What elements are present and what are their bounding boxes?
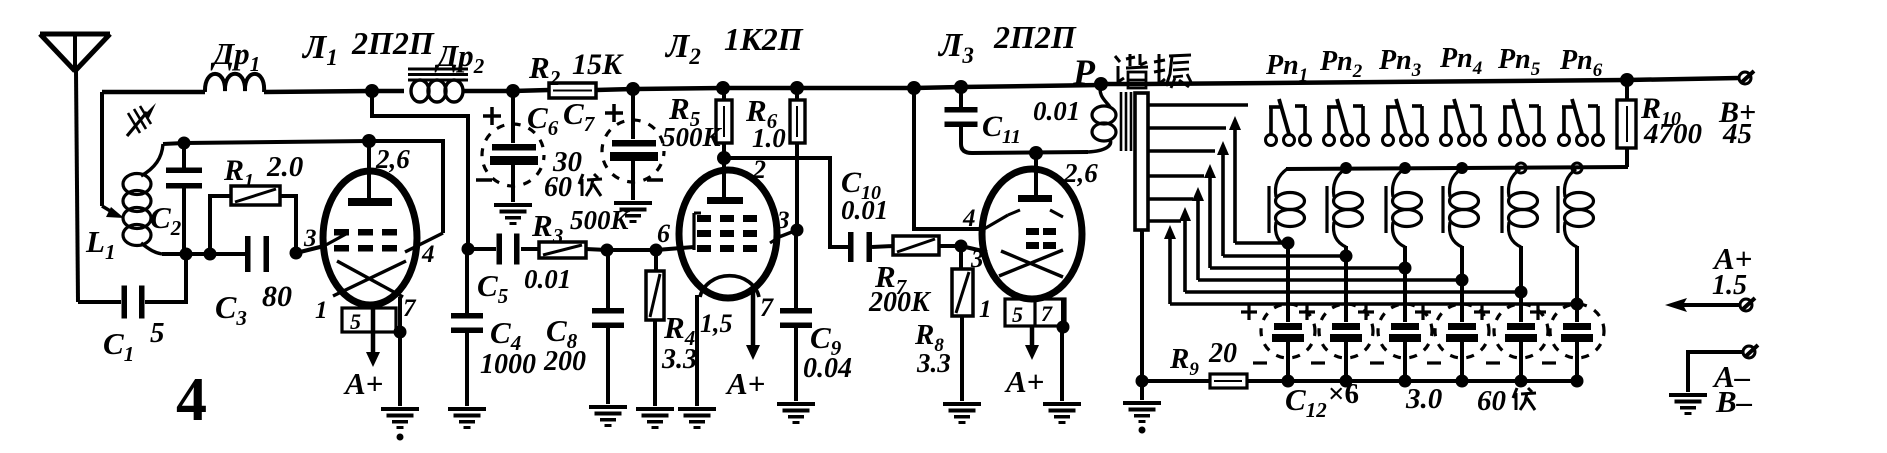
wire coil4 column bbox=[1460, 246, 1464, 322]
node column5 junction bbox=[1515, 286, 1528, 299]
relay contact Rp2 bbox=[1324, 135, 1335, 146]
svg-text:Рп6: Рп6 bbox=[1559, 45, 1603, 81]
svg-text:500K: 500K bbox=[662, 122, 723, 152]
C6 plus bbox=[483, 114, 501, 118]
node R7-R8 bbox=[955, 240, 968, 253]
svg-text:B–: B– bbox=[1715, 384, 1753, 419]
C12-5 minus bbox=[1486, 361, 1500, 364]
svg-text:C2: C2 bbox=[150, 200, 182, 240]
wire tube3 pin4 bbox=[914, 88, 984, 229]
ground B- terminal bbox=[1669, 393, 1707, 397]
svg-text:15K: 15K bbox=[572, 48, 624, 81]
relay contact Rp3 bbox=[1383, 135, 1394, 146]
svg-text:4700: 4700 bbox=[1643, 118, 1702, 150]
resistor R2 bbox=[549, 83, 596, 98]
wire bus over transformer bbox=[1101, 82, 1143, 87]
wire coil3 column bbox=[1403, 246, 1407, 322]
svg-text:7: 7 bbox=[403, 295, 417, 322]
node bus-R5 bbox=[716, 81, 730, 95]
transformer secondary bbox=[1135, 93, 1148, 230]
svg-text:2: 2 bbox=[752, 155, 766, 184]
resistor R3 bbox=[539, 242, 586, 258]
tube3 base box bbox=[1005, 299, 1065, 326]
choke Dr1 bbox=[205, 74, 264, 92]
capacitor C12-1 bbox=[1274, 323, 1302, 330]
C12-1 plus bbox=[1241, 310, 1257, 313]
ground transformer bbox=[1140, 381, 1144, 400]
svg-text:0.01: 0.01 bbox=[1033, 96, 1080, 126]
relay coil Rp1 bbox=[1267, 186, 1270, 233]
wire secondary tap 2 bbox=[1148, 126, 1226, 130]
svg-text:A+: A+ bbox=[1004, 364, 1044, 399]
capacitor C3 bbox=[245, 236, 251, 272]
wire bus R2 to C7 node bbox=[596, 89, 633, 90]
ground tube2 cathode bbox=[678, 407, 716, 411]
svg-text:7: 7 bbox=[1041, 301, 1053, 326]
wire node to tube3 pin3 bbox=[961, 246, 987, 252]
tube2 pin3 lead bbox=[779, 230, 797, 237]
wire C11 to transformer primary bbox=[972, 152, 1088, 153]
svg-text:7: 7 bbox=[760, 293, 774, 322]
node grid2 bbox=[717, 151, 731, 165]
resistor R5 bbox=[716, 100, 732, 143]
svg-text:Рп1: Рп1 bbox=[1265, 50, 1308, 86]
wire L1 top to grid line bbox=[163, 143, 184, 144]
node column2 bottom bbox=[1340, 375, 1353, 388]
svg-text:1.5: 1.5 bbox=[1712, 270, 1747, 301]
ground C9 bbox=[777, 402, 815, 406]
terminal A+ 1.5 bbox=[1683, 303, 1740, 307]
resistor R8 bbox=[959, 246, 963, 269]
C12-3 plus bbox=[1358, 310, 1374, 313]
transformer primary bbox=[1100, 84, 1110, 107]
node R4 bbox=[650, 244, 663, 257]
wire selector arrow 6 bbox=[1170, 302, 1577, 306]
transformer core bbox=[1120, 92, 1123, 151]
node bus-C11 bbox=[954, 80, 968, 94]
C12-3 minus bbox=[1370, 361, 1384, 364]
svg-text:3.3: 3.3 bbox=[916, 348, 951, 378]
tube3 upper right tick bbox=[1050, 210, 1063, 217]
wire bus transformer to R10 bbox=[1143, 80, 1627, 84]
capacitor C9 bbox=[780, 308, 812, 314]
relay coil Rp6 bbox=[1556, 186, 1559, 233]
node column6 junction bbox=[1571, 298, 1584, 311]
wire bus C6 to R2 bbox=[513, 90, 549, 91]
node column4 bottom bbox=[1456, 375, 1469, 388]
wire bus C7 to R5 bbox=[633, 88, 723, 89]
wire tube1 top cap bbox=[367, 141, 371, 198]
node rail-coil6 bbox=[1572, 163, 1582, 173]
node ground rail left bbox=[1136, 375, 1149, 388]
wire coil5 column bbox=[1519, 246, 1523, 322]
relay contact Rp6 bbox=[1559, 135, 1570, 146]
svg-text:2,6: 2,6 bbox=[375, 144, 410, 174]
node C8 bbox=[601, 244, 614, 257]
wire selector arrow 4 bbox=[1198, 278, 1462, 282]
wire secondary tap 6 bbox=[1148, 219, 1181, 223]
capacitor C12-3 bbox=[1391, 323, 1419, 330]
node tube1 top cap bbox=[362, 134, 376, 148]
svg-text:1: 1 bbox=[315, 297, 328, 324]
wire C10 to R7 bbox=[872, 246, 893, 247]
C7 dashed circle bbox=[602, 120, 664, 182]
svg-text:3: 3 bbox=[776, 207, 790, 234]
svg-text:A+: A+ bbox=[343, 366, 383, 401]
svg-text:Р: Р bbox=[1072, 52, 1096, 92]
wire coil2 column bbox=[1344, 246, 1348, 322]
tube1 pin3 lead-in bbox=[324, 234, 346, 246]
ground tube1 pin7 bbox=[381, 407, 419, 411]
svg-text:Л3: Л3 bbox=[937, 27, 974, 68]
C7 minus bbox=[647, 178, 663, 182]
C12-5 plus bbox=[1474, 310, 1490, 313]
C12-2 plus bbox=[1299, 310, 1315, 313]
svg-text:C12: C12 bbox=[1285, 382, 1327, 422]
tube1 anode bar bbox=[348, 198, 392, 206]
tube U2 envelope bbox=[679, 170, 777, 298]
tube2 grid dashes bbox=[697, 215, 711, 222]
node column3 junction bbox=[1399, 262, 1412, 275]
wire secondary bottom to ground node bbox=[1140, 230, 1144, 381]
C12-4 plus bbox=[1415, 310, 1431, 313]
svg-text:0.01: 0.01 bbox=[524, 264, 571, 294]
svg-text:Рп4: Рп4 bbox=[1439, 43, 1482, 79]
svg-text:C5: C5 bbox=[477, 268, 508, 308]
svg-text:1,5: 1,5 bbox=[700, 309, 733, 338]
svg-text:Рп2: Рп2 bbox=[1319, 46, 1363, 82]
wire C8 node to R4 node bbox=[607, 248, 656, 252]
node bus-R6 bbox=[790, 81, 804, 95]
C12-1 dashed circle bbox=[1261, 304, 1315, 358]
node column3 bottom bbox=[1399, 375, 1412, 388]
ground tube3 pin7 bbox=[1043, 402, 1081, 406]
capacitor C1 bbox=[78, 300, 121, 304]
svg-text:20: 20 bbox=[1208, 338, 1237, 369]
svg-text:2.0: 2.0 bbox=[266, 151, 303, 183]
svg-text:Л1: Л1 bbox=[301, 29, 338, 70]
wire R3 to C8 node bbox=[586, 249, 607, 250]
capacitor C6 bbox=[511, 91, 515, 143]
adjustable coupling arrow bbox=[127, 112, 147, 136]
tube2 grid bracket bbox=[692, 213, 695, 250]
C6 dashed circle bbox=[482, 124, 544, 186]
ground C4 bbox=[448, 407, 486, 411]
arrow tube3 A+ bbox=[1030, 326, 1035, 348]
C6 minus bbox=[476, 178, 492, 182]
coil L1 bbox=[123, 174, 151, 195]
svg-text:1.0: 1.0 bbox=[752, 123, 786, 153]
svg-text:45: 45 bbox=[1722, 118, 1752, 150]
node tube2 pin3 bbox=[791, 224, 804, 237]
relay coil Rp4 bbox=[1441, 186, 1444, 233]
svg-text:C7: C7 bbox=[563, 96, 596, 136]
C12-1 minus bbox=[1253, 361, 1267, 364]
wire relay coil top rail bbox=[1286, 167, 1628, 169]
node bus-C6 bbox=[506, 84, 520, 98]
resistor R9 bbox=[1142, 379, 1210, 383]
capacitor C11 bbox=[959, 87, 963, 109]
svg-text:2,6: 2,6 bbox=[1063, 158, 1098, 188]
svg-text:3.3: 3.3 bbox=[661, 344, 697, 375]
wire L1 bottom line bbox=[162, 252, 246, 256]
relay coil Rp2 bbox=[1325, 186, 1328, 233]
ground R4 bbox=[636, 407, 674, 411]
node tube3 top cap bbox=[1029, 146, 1043, 160]
wire grid top line bbox=[184, 141, 369, 143]
wire grid2 to C10 bbox=[724, 158, 849, 247]
capacitor C8 bbox=[606, 250, 610, 310]
svg-text:5: 5 bbox=[1012, 302, 1023, 327]
ground C6 bbox=[494, 203, 532, 207]
svg-text:60: 60 bbox=[1477, 385, 1506, 417]
svg-text:200: 200 bbox=[543, 346, 586, 377]
svg-text:2П2П: 2П2П bbox=[351, 25, 435, 61]
svg-text:1000: 1000 bbox=[480, 349, 536, 380]
choke Dr2 bbox=[372, 89, 404, 94]
node bus-C7 bbox=[626, 82, 640, 96]
wire R5 to tube2 top cap bbox=[722, 158, 726, 198]
wire tube2 cathode to ground bbox=[695, 295, 699, 406]
svg-text:×6: ×6 bbox=[1328, 378, 1359, 410]
relay coil Rp3 bbox=[1384, 186, 1387, 233]
svg-text:C11: C11 bbox=[982, 110, 1021, 148]
svg-text:5: 5 bbox=[150, 317, 165, 349]
node column6 bottom bbox=[1571, 375, 1584, 388]
terminal B- bbox=[1743, 346, 1755, 358]
wire secondary tap 5 bbox=[1148, 197, 1193, 201]
C12-5 dashed circle bbox=[1494, 304, 1548, 358]
wire R7 to node bbox=[939, 244, 961, 248]
wire R6 node down to C9 bbox=[794, 230, 798, 310]
wire antenna-bus corner to L1 tap bbox=[100, 92, 104, 206]
svg-text:C1: C1 bbox=[103, 326, 134, 366]
relay coil Rp5 bbox=[1500, 186, 1503, 233]
svg-text:3.0: 3.0 bbox=[1405, 383, 1442, 415]
relay contact Rp1 bbox=[1266, 135, 1277, 146]
svg-text:R3: R3 bbox=[531, 208, 563, 248]
svg-text:Др2: Др2 bbox=[434, 38, 485, 78]
label xie-zhen (resonance) bbox=[1115, 56, 1120, 62]
capacitor C12-2 bbox=[1332, 323, 1360, 330]
svg-text:4: 4 bbox=[176, 366, 207, 434]
wire tube1 pins 2,6 loop bbox=[369, 141, 443, 233]
capacitor C2 bbox=[182, 143, 186, 170]
ground R8 bbox=[943, 402, 981, 406]
wire top bus bbox=[102, 90, 205, 95]
tube3 anode bar bbox=[1018, 195, 1052, 202]
wire selector arrow 1 bbox=[1235, 241, 1288, 245]
node bus-R10 bbox=[1620, 73, 1634, 87]
svg-text:6: 6 bbox=[657, 219, 670, 248]
capacitor C7 bbox=[631, 89, 635, 139]
capacitor C4 bbox=[465, 249, 469, 315]
node L1 bottom-C1 bbox=[180, 248, 193, 261]
tube1 base box bbox=[342, 308, 396, 332]
node tube3 pin7 bbox=[1057, 321, 1070, 334]
svg-text:3: 3 bbox=[303, 225, 317, 252]
antenna bbox=[40, 32, 110, 37]
node C4-C5 bbox=[462, 243, 475, 256]
wire plate feed bbox=[372, 91, 468, 249]
wire selector arrow 2 bbox=[1223, 254, 1346, 258]
node rail-coil4 bbox=[1456, 162, 1468, 174]
capacitor C10 bbox=[848, 232, 854, 262]
tube1 cathode cross bbox=[333, 261, 406, 296]
node column1 junction bbox=[1282, 237, 1295, 250]
node rail-coil2 bbox=[1340, 162, 1352, 174]
wire bus C11 to transformer bbox=[961, 85, 1101, 87]
node bus-pin4 drop bbox=[907, 81, 921, 95]
tube2 cathode dome bbox=[700, 276, 759, 297]
resistor R10 bbox=[1617, 100, 1636, 148]
C12-6 plus bbox=[1530, 310, 1546, 313]
C12-4 dashed circle bbox=[1435, 304, 1489, 358]
capacitor C12-6 bbox=[1563, 323, 1591, 330]
resistor R7 bbox=[893, 236, 939, 255]
C12-6 dashed circle bbox=[1550, 304, 1604, 358]
svg-text:0.01: 0.01 bbox=[841, 195, 888, 225]
node tube1 pin7 bbox=[394, 326, 407, 339]
node rail-coil5 bbox=[1516, 163, 1526, 173]
svg-text:Л2: Л2 bbox=[664, 28, 701, 69]
svg-text:2П2П: 2П2П bbox=[993, 19, 1077, 55]
C12-4 minus bbox=[1427, 361, 1441, 364]
svg-text:80: 80 bbox=[262, 280, 292, 313]
wire bus Dr2 to C6 node bbox=[470, 89, 513, 94]
svg-text:R1: R1 bbox=[223, 154, 254, 192]
tube1 grid dashes bbox=[334, 229, 349, 236]
wire C12 bottom rail bbox=[1247, 379, 1580, 383]
node L1-C2 top bbox=[178, 137, 191, 150]
svg-text:60: 60 bbox=[544, 172, 572, 203]
capacitor C12-4 bbox=[1448, 323, 1476, 330]
C12-3 dashed circle bbox=[1378, 304, 1432, 358]
wire coil1 column bbox=[1286, 246, 1290, 322]
svg-text:L1: L1 bbox=[85, 224, 115, 264]
svg-text:C6: C6 bbox=[527, 100, 559, 140]
node column5 bottom bbox=[1515, 375, 1528, 388]
svg-text:Др1: Др1 bbox=[210, 36, 260, 76]
svg-text:R9: R9 bbox=[1169, 343, 1199, 380]
wire secondary tap 1 bbox=[1148, 103, 1248, 107]
wire tube3 top cap bbox=[1034, 153, 1038, 196]
relay contact Rp5 bbox=[1500, 135, 1511, 146]
node column1 bottom bbox=[1282, 375, 1295, 388]
C7 plus bbox=[605, 111, 623, 115]
tube U3 envelope bbox=[982, 169, 1082, 299]
svg-text:200K: 200K bbox=[868, 287, 932, 318]
ground C8 bbox=[589, 405, 627, 409]
wire bus to C11 node bbox=[914, 87, 961, 88]
C12-2 dashed circle bbox=[1319, 304, 1373, 358]
wire secondary tap 4 bbox=[1148, 174, 1204, 178]
node L1 bottom-R1C3 left bbox=[204, 248, 217, 261]
svg-text:0.04: 0.04 bbox=[803, 353, 852, 384]
node column2 junction bbox=[1340, 250, 1353, 263]
svg-text:5: 5 bbox=[350, 309, 361, 334]
tube3 grid dashes bbox=[1026, 228, 1039, 235]
node bus-L1 plate bbox=[365, 84, 379, 98]
wire tube3 pin7 to ground bbox=[1061, 299, 1065, 327]
tube3 pin4 lead bbox=[984, 215, 1008, 229]
wire bus R6 to pin4 drop bbox=[797, 86, 914, 91]
svg-text:A+: A+ bbox=[725, 366, 765, 401]
node rail-coil3 bbox=[1399, 162, 1411, 174]
wire selector arrow 5 bbox=[1185, 290, 1521, 294]
wire coil6 column bbox=[1575, 246, 1579, 322]
wire bus Dr1 to node bbox=[264, 91, 372, 92]
svg-text:Рп5: Рп5 bbox=[1497, 44, 1541, 80]
wire R4 node to tube2 pin6 bbox=[656, 247, 694, 250]
arrow tube2 A+ bbox=[751, 291, 756, 348]
arrow tube1 A+ bbox=[371, 305, 376, 355]
svg-text:R2: R2 bbox=[528, 50, 561, 90]
tube2 anode bar bbox=[707, 197, 743, 204]
capacitor C5 bbox=[468, 247, 496, 251]
C12-6 minus bbox=[1542, 361, 1556, 364]
node bus-transformer primary bbox=[1094, 77, 1108, 91]
wire tube1 pin7 to ground bbox=[398, 297, 402, 332]
resistor R4 bbox=[654, 250, 658, 271]
resistor R1 bbox=[210, 196, 231, 254]
svg-text:4: 4 bbox=[962, 205, 976, 232]
wire selector arrow 3 bbox=[1210, 266, 1405, 270]
svg-text:4: 4 bbox=[421, 241, 435, 268]
resistor R6 bbox=[790, 100, 805, 143]
tube U1 envelope bbox=[323, 171, 417, 305]
relay contact Rp4 bbox=[1441, 135, 1452, 146]
svg-text:1: 1 bbox=[979, 296, 992, 323]
capacitor C12-5 bbox=[1507, 323, 1535, 330]
C12-2 minus bbox=[1311, 361, 1325, 364]
svg-text:1К2П: 1К2П bbox=[724, 21, 804, 57]
terminal B+ bbox=[1739, 72, 1751, 84]
wire secondary tap 3 bbox=[1148, 149, 1215, 153]
svg-text:Рп3: Рп3 bbox=[1378, 45, 1421, 81]
svg-text:C3: C3 bbox=[215, 289, 247, 330]
node R1C3 right bbox=[290, 247, 303, 260]
ground C7 bbox=[614, 201, 652, 205]
wire bus R5 to R6 bbox=[723, 86, 797, 91]
node column4 junction bbox=[1456, 274, 1469, 287]
wire to tube1 grid pin3 bbox=[296, 246, 324, 253]
tube3 cathode cross bbox=[999, 250, 1063, 276]
wire bus R10 to B+ terminal bbox=[1627, 78, 1739, 80]
